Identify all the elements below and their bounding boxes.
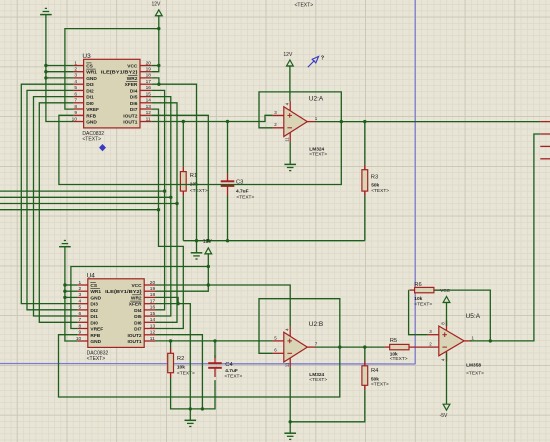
power terminal -5V for U5:A xyxy=(443,404,450,410)
U4 pin 6 stub (DI1) xyxy=(78,315,88,317)
junction R4 top xyxy=(363,345,366,348)
svg-text:GND: GND xyxy=(90,339,101,345)
wire U3 XFER pin17 down to ground net xyxy=(151,84,196,241)
junction U4 pin2 xyxy=(63,290,66,293)
U4 pin 14 stub (DI6) xyxy=(144,321,155,323)
wire DI2 bus U3.5 to U4.5 xyxy=(27,90,78,309)
svg-text:20: 20 xyxy=(146,60,152,66)
off-sheet component pin stub at right y=121.6 xyxy=(540,121,550,123)
junction C3 top xyxy=(226,120,229,123)
wire IOUT2 ground net horizontal xyxy=(183,240,364,242)
svg-text:DI4: DI4 xyxy=(130,88,138,94)
svg-text:<TEXT>: <TEXT> xyxy=(309,377,327,383)
wire U3 IOUT1 pin11 to U2:A + input xyxy=(151,115,272,121)
svg-text:<TEXT>: <TEXT> xyxy=(87,356,106,362)
junction DI7 bus entry xyxy=(157,208,160,211)
U3 pin 2 stub (WR1) xyxy=(73,71,83,73)
svg-text:U5:A: U5:A xyxy=(466,313,481,320)
junction U4 WR2/XFER xyxy=(176,302,179,305)
U4 pin 10 stub (GND) xyxy=(78,340,88,342)
sheet border vertical line xyxy=(414,0,416,364)
ground symbol below U2:B xyxy=(284,432,296,434)
resistor R1 xyxy=(182,167,184,172)
U5:A - input stub pin 2 xyxy=(428,346,439,348)
off-sheet component pin stub at right y=134 xyxy=(540,133,550,135)
svg-text:LM324: LM324 xyxy=(309,146,324,152)
U4 pin 5 stub (DI2) xyxy=(78,309,88,311)
svg-text:<TEXT>: <TEXT> xyxy=(224,373,242,379)
wire 12V terminal to U3 VCC and ILE xyxy=(151,16,159,72)
wire U4 VCC pin20 to rail and U2:B V+ xyxy=(156,285,291,327)
svg-text:8: 8 xyxy=(74,104,77,110)
svg-text:IOUT2: IOUT2 xyxy=(123,113,137,119)
off-sheet component pin stub at right y=146.4 xyxy=(540,145,550,147)
wire R6 left lead to U5:A + input xyxy=(408,289,411,291)
wire U2:B output to R5 and R4 xyxy=(315,346,384,348)
svg-text:IOUT1: IOUT1 xyxy=(123,120,137,126)
svg-text:4.7uF: 4.7uF xyxy=(225,368,238,374)
junction R3 top xyxy=(363,120,366,123)
wire DI0 bus U3.7 to U4.7 xyxy=(39,103,77,322)
svg-text:DI1: DI1 xyxy=(90,314,98,320)
svg-text:11: 11 xyxy=(150,336,155,342)
svg-text:GND: GND xyxy=(90,295,101,301)
svg-text:<TEXT>: <TEXT> xyxy=(371,188,389,194)
wire C4 top lead xyxy=(214,341,216,358)
wire 12V to U2:A V+ pin4 xyxy=(289,66,291,101)
wire DI6 bus from left edge xyxy=(0,203,177,205)
U3 pin 11 stub (IOUT1) xyxy=(140,121,151,123)
svg-text:2: 2 xyxy=(74,67,77,73)
svg-text:9: 9 xyxy=(79,330,82,336)
svg-text:11: 11 xyxy=(146,116,151,122)
svg-text:1: 1 xyxy=(74,60,77,66)
svg-text:3: 3 xyxy=(74,73,77,79)
svg-text:R2: R2 xyxy=(177,356,184,362)
U3 pin 16 stub (DI4) xyxy=(140,89,151,91)
junction U2:A output feedback xyxy=(340,120,343,123)
U5:A output stub pin 1 xyxy=(464,340,472,342)
svg-text:CS: CS xyxy=(86,64,93,70)
svg-text:50k: 50k xyxy=(371,183,379,189)
svg-text:LM358: LM358 xyxy=(466,363,481,369)
svg-text:5: 5 xyxy=(79,305,82,311)
svg-text:15: 15 xyxy=(150,311,156,317)
wire R6 right to VCC node and feedback xyxy=(434,290,490,341)
U4 pin 16 stub (DI4) xyxy=(144,309,155,311)
U4 pin 12 stub (IOUT2) xyxy=(144,334,155,336)
wire R2 top lead xyxy=(170,341,172,349)
svg-text:12: 12 xyxy=(150,330,156,336)
svg-text:XFER: XFER xyxy=(125,82,138,88)
svg-text:DI4: DI4 xyxy=(134,308,142,314)
junction R2 top xyxy=(169,339,172,342)
svg-text:DI2: DI2 xyxy=(90,308,98,314)
junction IOUT2 rail xyxy=(207,239,210,242)
svg-text:IOUT2: IOUT2 xyxy=(127,333,141,339)
svg-text:DI2: DI2 xyxy=(86,88,94,94)
wire U4 XFER pin17 down to bottom ground bus xyxy=(156,304,191,409)
svg-text:DI5: DI5 xyxy=(134,314,142,320)
wire U5:A output to right edge part xyxy=(470,134,540,341)
U5:A V+ power stub pin 8 xyxy=(446,320,448,330)
wire VCC to U5:A V+ pin8 xyxy=(446,303,448,327)
junction 12V / U3 pin20 xyxy=(157,64,160,67)
svg-text:<TEXT>: <TEXT> xyxy=(371,382,389,388)
U4 pin 20 stub (VCC) xyxy=(144,284,155,286)
wire U3 RFB pin9 feedback to U2:A xyxy=(59,92,341,185)
wire DI5 bus from left edge xyxy=(0,196,171,198)
IC U4 DAC0832 body xyxy=(88,279,144,348)
svg-text:18: 18 xyxy=(146,73,152,79)
svg-text:WR2: WR2 xyxy=(127,76,138,82)
U3 pin 6 stub (DI1) xyxy=(73,96,83,98)
svg-text:<TEXT>: <TEXT> xyxy=(390,356,408,362)
wire U5:A V- pin4 to -5V xyxy=(446,353,448,405)
svg-text:3: 3 xyxy=(79,292,82,298)
U4 pin 13 stub (DI7) xyxy=(144,328,155,330)
svg-text:19: 19 xyxy=(150,286,156,292)
svg-text:R4: R4 xyxy=(371,368,379,374)
U4 pin 17 stub (XFER) xyxy=(144,303,155,305)
svg-text:4: 4 xyxy=(79,299,82,305)
svg-text:DI6: DI6 xyxy=(134,320,142,326)
U3 pin 15 stub (DI5) xyxy=(140,96,151,98)
U4 pin 11 stub (IOUT1) xyxy=(144,340,155,342)
wire U2:A V- pin11 to ground xyxy=(289,142,291,164)
U3 pin 14 stub (DI6) xyxy=(140,102,151,104)
svg-text:18: 18 xyxy=(150,292,156,298)
junction DI5 bus entry xyxy=(169,196,172,199)
U3 pin 20 stub (VCC) xyxy=(140,65,151,67)
svg-text:<TEXT>: <TEXT> xyxy=(190,188,208,194)
svg-text:<TEXT>: <TEXT> xyxy=(236,195,254,201)
wire U4 IOUT1 pin11 to U2:B + input xyxy=(156,340,273,342)
U4 pin 9 stub (RFB) xyxy=(78,334,88,336)
svg-text:12V: 12V xyxy=(152,2,162,8)
wire DI1 bus U3.6 to U4.6 xyxy=(34,97,78,316)
svg-text:XFER: XFER xyxy=(129,302,142,308)
wire 12V rail down to U4 pin19 xyxy=(156,254,209,291)
wire R1 bottom to ground net xyxy=(182,196,184,241)
svg-text:VREF: VREF xyxy=(86,107,99,113)
svg-text:U2:A: U2:A xyxy=(309,95,324,102)
U3 pin 17 stub (XFER) xyxy=(140,83,151,85)
op-amp U2:A LM324 triangle xyxy=(284,107,308,137)
wire R5 to U5:A - input xyxy=(409,346,427,348)
svg-text:20: 20 xyxy=(150,280,156,286)
svg-text:DI0: DI0 xyxy=(90,320,98,326)
svg-text:DI6: DI6 xyxy=(130,101,138,107)
svg-text:WR2: WR2 xyxy=(131,295,142,301)
wire U4 WR2 pin18 to XFER net xyxy=(156,297,179,303)
U2:A - input stub pin 2 xyxy=(273,127,284,129)
svg-text:DI3: DI3 xyxy=(86,82,94,88)
U4 pin 4 stub (DI3) xyxy=(78,303,88,305)
op-amp U2:B LM324 triangle xyxy=(284,332,308,362)
sheet border horizontal line xyxy=(0,363,415,366)
U3 pin 12 stub (IOUT2) xyxy=(140,114,151,116)
svg-text:<TEXT>: <TEXT> xyxy=(82,137,101,143)
svg-text:WR1: WR1 xyxy=(90,289,101,295)
wire U3 DI5 pin15 down to U4 pin15 xyxy=(151,97,171,316)
U3 pin 8 stub (VREF) xyxy=(73,108,83,110)
svg-text:1: 1 xyxy=(79,280,82,286)
U4 pin 18 stub (WR2) xyxy=(144,296,155,298)
wire R4 top lead xyxy=(364,347,366,361)
svg-text:8: 8 xyxy=(79,323,82,329)
svg-text:14: 14 xyxy=(146,98,152,104)
svg-text:10k: 10k xyxy=(414,296,422,302)
svg-text:16: 16 xyxy=(150,305,156,311)
junction VREF U4 wire xyxy=(207,265,210,268)
wire U4 RFB pin9 feedback to U2:B xyxy=(59,299,340,397)
svg-text:U3: U3 xyxy=(82,53,91,60)
svg-text:ILE(BY1/BY2): ILE(BY1/BY2) xyxy=(105,289,142,294)
U4 pin 15 stub (DI5) xyxy=(144,315,155,317)
junction DI6 bus entry xyxy=(175,202,178,205)
wire ground rail to U4 pins 1,2,3,10 xyxy=(65,247,78,341)
svg-text:GND: GND xyxy=(86,120,97,126)
U3 pin 9 stub (RFB) xyxy=(73,114,83,116)
U2:A + input stub pin 3 xyxy=(273,114,284,116)
svg-text:<TEXT>: <TEXT> xyxy=(414,301,432,307)
svg-text:VCC: VCC xyxy=(127,64,138,70)
wire DI7 bus from left edge xyxy=(0,209,159,211)
svg-text:13: 13 xyxy=(150,323,156,329)
svg-text:50k: 50k xyxy=(371,376,379,382)
wire U3 DI7 pin13 down to U4 pin13 with jog xyxy=(151,109,183,328)
wire R1 top lead xyxy=(182,122,184,167)
wire U4 IOUT2 pin12 down to bottom ground bus xyxy=(156,335,203,409)
wire R2 bottom to ground bus xyxy=(171,378,215,409)
svg-text:10k: 10k xyxy=(177,365,185,371)
U2:A V+ power stub pin 4 xyxy=(289,101,291,111)
svg-text:11: 11 xyxy=(284,362,289,367)
svg-text:GND: GND xyxy=(86,76,97,82)
junction R1 top xyxy=(182,120,185,123)
svg-text:4: 4 xyxy=(74,79,77,85)
U4 pin 2 stub (WR1) xyxy=(78,290,88,292)
U3 pin 7 stub (DI0) xyxy=(73,102,83,104)
wire DI3 bus U3.4 to U4.4 xyxy=(21,84,77,303)
svg-text:<TEXT>: <TEXT> xyxy=(309,152,327,158)
U3 pin 18 stub (WR2) xyxy=(140,77,151,79)
svg-text:<TEXT>: <TEXT> xyxy=(177,371,195,377)
resistor R4 xyxy=(364,361,366,366)
svg-text:2: 2 xyxy=(79,286,82,292)
svg-text:6: 6 xyxy=(74,91,77,97)
wire U3 VREF pin8 to 12V rail xyxy=(65,29,159,110)
svg-text:<TEXT>: <TEXT> xyxy=(466,370,484,376)
svg-text:7: 7 xyxy=(79,317,82,323)
U3 pin 19 stub (ILE(BY1/BY2)) xyxy=(140,71,151,73)
svg-text:19: 19 xyxy=(146,67,152,73)
junction U2:B output feedback xyxy=(338,345,341,348)
wire U3 DI4 pin16 down to U4 pin16 xyxy=(151,90,164,309)
junction U3 pin1 xyxy=(44,64,47,67)
ground symbol bottom middle xyxy=(189,409,191,420)
svg-text:4.7uF: 4.7uF xyxy=(236,189,249,195)
op-amp U5:A LM358 triangle xyxy=(439,326,464,356)
junction C3 bottom xyxy=(226,239,229,242)
svg-text:17: 17 xyxy=(150,299,156,305)
resistor R3 xyxy=(364,165,366,170)
junction XFER/ground net xyxy=(195,239,198,242)
U2:A output stub pin 1 xyxy=(307,121,315,123)
junction DI4 bus entry xyxy=(163,189,166,192)
ground symbol top-left (inverted) xyxy=(45,7,47,9)
resistor R6 xyxy=(410,289,415,291)
svg-text:R5: R5 xyxy=(390,338,397,344)
svg-text:ILE(BY1/BY2): ILE(BY1/BY2) xyxy=(101,70,138,75)
wire U4 VREF pin8 loop xyxy=(71,267,208,329)
wire DI4 bus from left edge xyxy=(0,190,165,192)
U2:A V- power stub pin 11 xyxy=(289,132,291,142)
wire U3 WR2 pin18 to XFER net xyxy=(151,78,159,84)
svg-text:11: 11 xyxy=(284,137,289,142)
junction R4 / ground xyxy=(289,420,292,423)
U4 pin 19 stub (ILE(BY1/BY2)) xyxy=(144,290,155,292)
svg-text:DI0: DI0 xyxy=(86,101,94,107)
origin marker blue diamond xyxy=(99,144,106,151)
svg-text:LM324: LM324 xyxy=(309,372,324,378)
svg-text:R3: R3 xyxy=(371,175,378,181)
wire C3 bottom lead xyxy=(227,196,229,241)
U4 pin 7 stub (DI0) xyxy=(78,321,88,323)
junction WR2/XFER xyxy=(157,83,160,86)
U3 pin 10 stub (GND) xyxy=(73,121,83,123)
U4 pin 1 stub (CS) xyxy=(78,284,88,286)
wire U3 DI6 pin14 down to U4 pin14 xyxy=(151,103,177,322)
svg-text:-5V: -5V xyxy=(440,413,448,419)
wire U3 IOUT2 pin12 down to ground net xyxy=(151,115,208,240)
U4 pin 3 stub (GND) xyxy=(78,296,88,298)
capacitor C3 4.7uF xyxy=(227,173,229,181)
junction U4 pin3 xyxy=(63,296,66,299)
U3 pin 4 stub (DI3) xyxy=(73,83,83,85)
U5:A V- power stub pin 4 xyxy=(446,351,448,361)
junction U4 pin1 xyxy=(63,283,66,286)
U2:B V+ power stub pin 4 xyxy=(289,327,291,337)
svg-text:12V: 12V xyxy=(203,239,213,245)
wire R3 bottom to ground net xyxy=(364,196,366,241)
svg-text:5: 5 xyxy=(74,85,77,91)
U3 pin 1 stub (CS) xyxy=(73,65,83,67)
svg-text:13: 13 xyxy=(146,104,152,110)
svg-text:U2:B: U2:B xyxy=(309,321,323,328)
U3 pin 3 stub (GND) xyxy=(73,77,83,79)
junction U3 pin2 xyxy=(44,70,47,73)
svg-text:6: 6 xyxy=(79,311,82,317)
ground symbol below U2:A xyxy=(284,163,296,165)
junction C4 top xyxy=(213,339,216,342)
svg-text:9: 9 xyxy=(74,110,77,116)
svg-text:12V: 12V xyxy=(283,52,293,58)
U2:B V- power stub pin 11 xyxy=(289,358,291,368)
svg-text:DI1: DI1 xyxy=(86,95,94,101)
wire C3 top lead xyxy=(227,122,229,174)
svg-text:RFB: RFB xyxy=(90,333,100,339)
inverted ground above U4 xyxy=(64,240,66,242)
svg-text:DI3: DI3 xyxy=(90,302,98,308)
U2:B + input stub pin 5 xyxy=(273,340,284,342)
svg-text:WR1: WR1 xyxy=(86,70,97,76)
wire R3 top lead xyxy=(364,122,366,165)
U5:A + input stub pin 3 xyxy=(428,334,439,336)
wire U2:B V- pin11 to ground xyxy=(289,368,291,433)
svg-text:RFB: RFB xyxy=(86,113,96,119)
U2:B - input stub pin 6 xyxy=(273,352,284,354)
resistor R2 xyxy=(170,349,172,354)
svg-text:7: 7 xyxy=(74,98,77,104)
svg-text:U4: U4 xyxy=(87,273,96,280)
svg-text:IOUT1: IOUT1 xyxy=(127,339,141,345)
svg-text:17: 17 xyxy=(146,79,152,85)
U4 pin 8 stub (VREF) xyxy=(78,328,88,330)
svg-text:C4: C4 xyxy=(225,362,233,368)
svg-text:15: 15 xyxy=(146,91,152,97)
wire R4 bottom to U2:B ground node xyxy=(290,390,365,422)
svg-text:R6: R6 xyxy=(414,282,421,288)
junction U4 VCC wire xyxy=(207,283,210,286)
svg-text:<TEXT>: <TEXT> xyxy=(295,3,314,9)
junction ground stem on bus xyxy=(189,407,192,410)
resistor R5 xyxy=(384,346,389,348)
ground symbol below IOUT2 net xyxy=(196,241,198,253)
capacitor C4 4.7uF xyxy=(214,355,216,363)
svg-text:DI5: DI5 xyxy=(130,95,138,101)
svg-text:VCC: VCC xyxy=(131,283,142,289)
wire ground rail to U3 pins 1,2,3,10 xyxy=(46,15,74,122)
U3 pin 13 stub (DI7) xyxy=(140,108,151,110)
svg-text:DI7: DI7 xyxy=(130,107,138,113)
mouse cursor arrow with question mark xyxy=(308,56,319,67)
off-sheet component pin stub at right y=158.8 xyxy=(540,158,550,160)
svg-text:VCC: VCC xyxy=(440,288,450,293)
wire U2:A output to right edge part xyxy=(315,121,540,123)
IC U3 DAC0832 body xyxy=(84,59,140,128)
U3 pin 5 stub (DI2) xyxy=(73,89,83,91)
junction IOUT2 on bus xyxy=(201,407,204,410)
svg-text:16: 16 xyxy=(146,85,152,91)
junction 12V rail / VREF wire xyxy=(157,27,160,30)
junction U3 pin3 xyxy=(44,76,47,79)
svg-text:12: 12 xyxy=(146,110,152,116)
svg-text:14: 14 xyxy=(150,317,156,323)
U2:B output stub pin 7 xyxy=(307,346,315,348)
junction U5:A output feedback xyxy=(489,339,492,342)
svg-text:VREF: VREF xyxy=(90,327,103,333)
svg-text:DI7: DI7 xyxy=(134,327,142,333)
svg-text:CS: CS xyxy=(90,283,97,289)
